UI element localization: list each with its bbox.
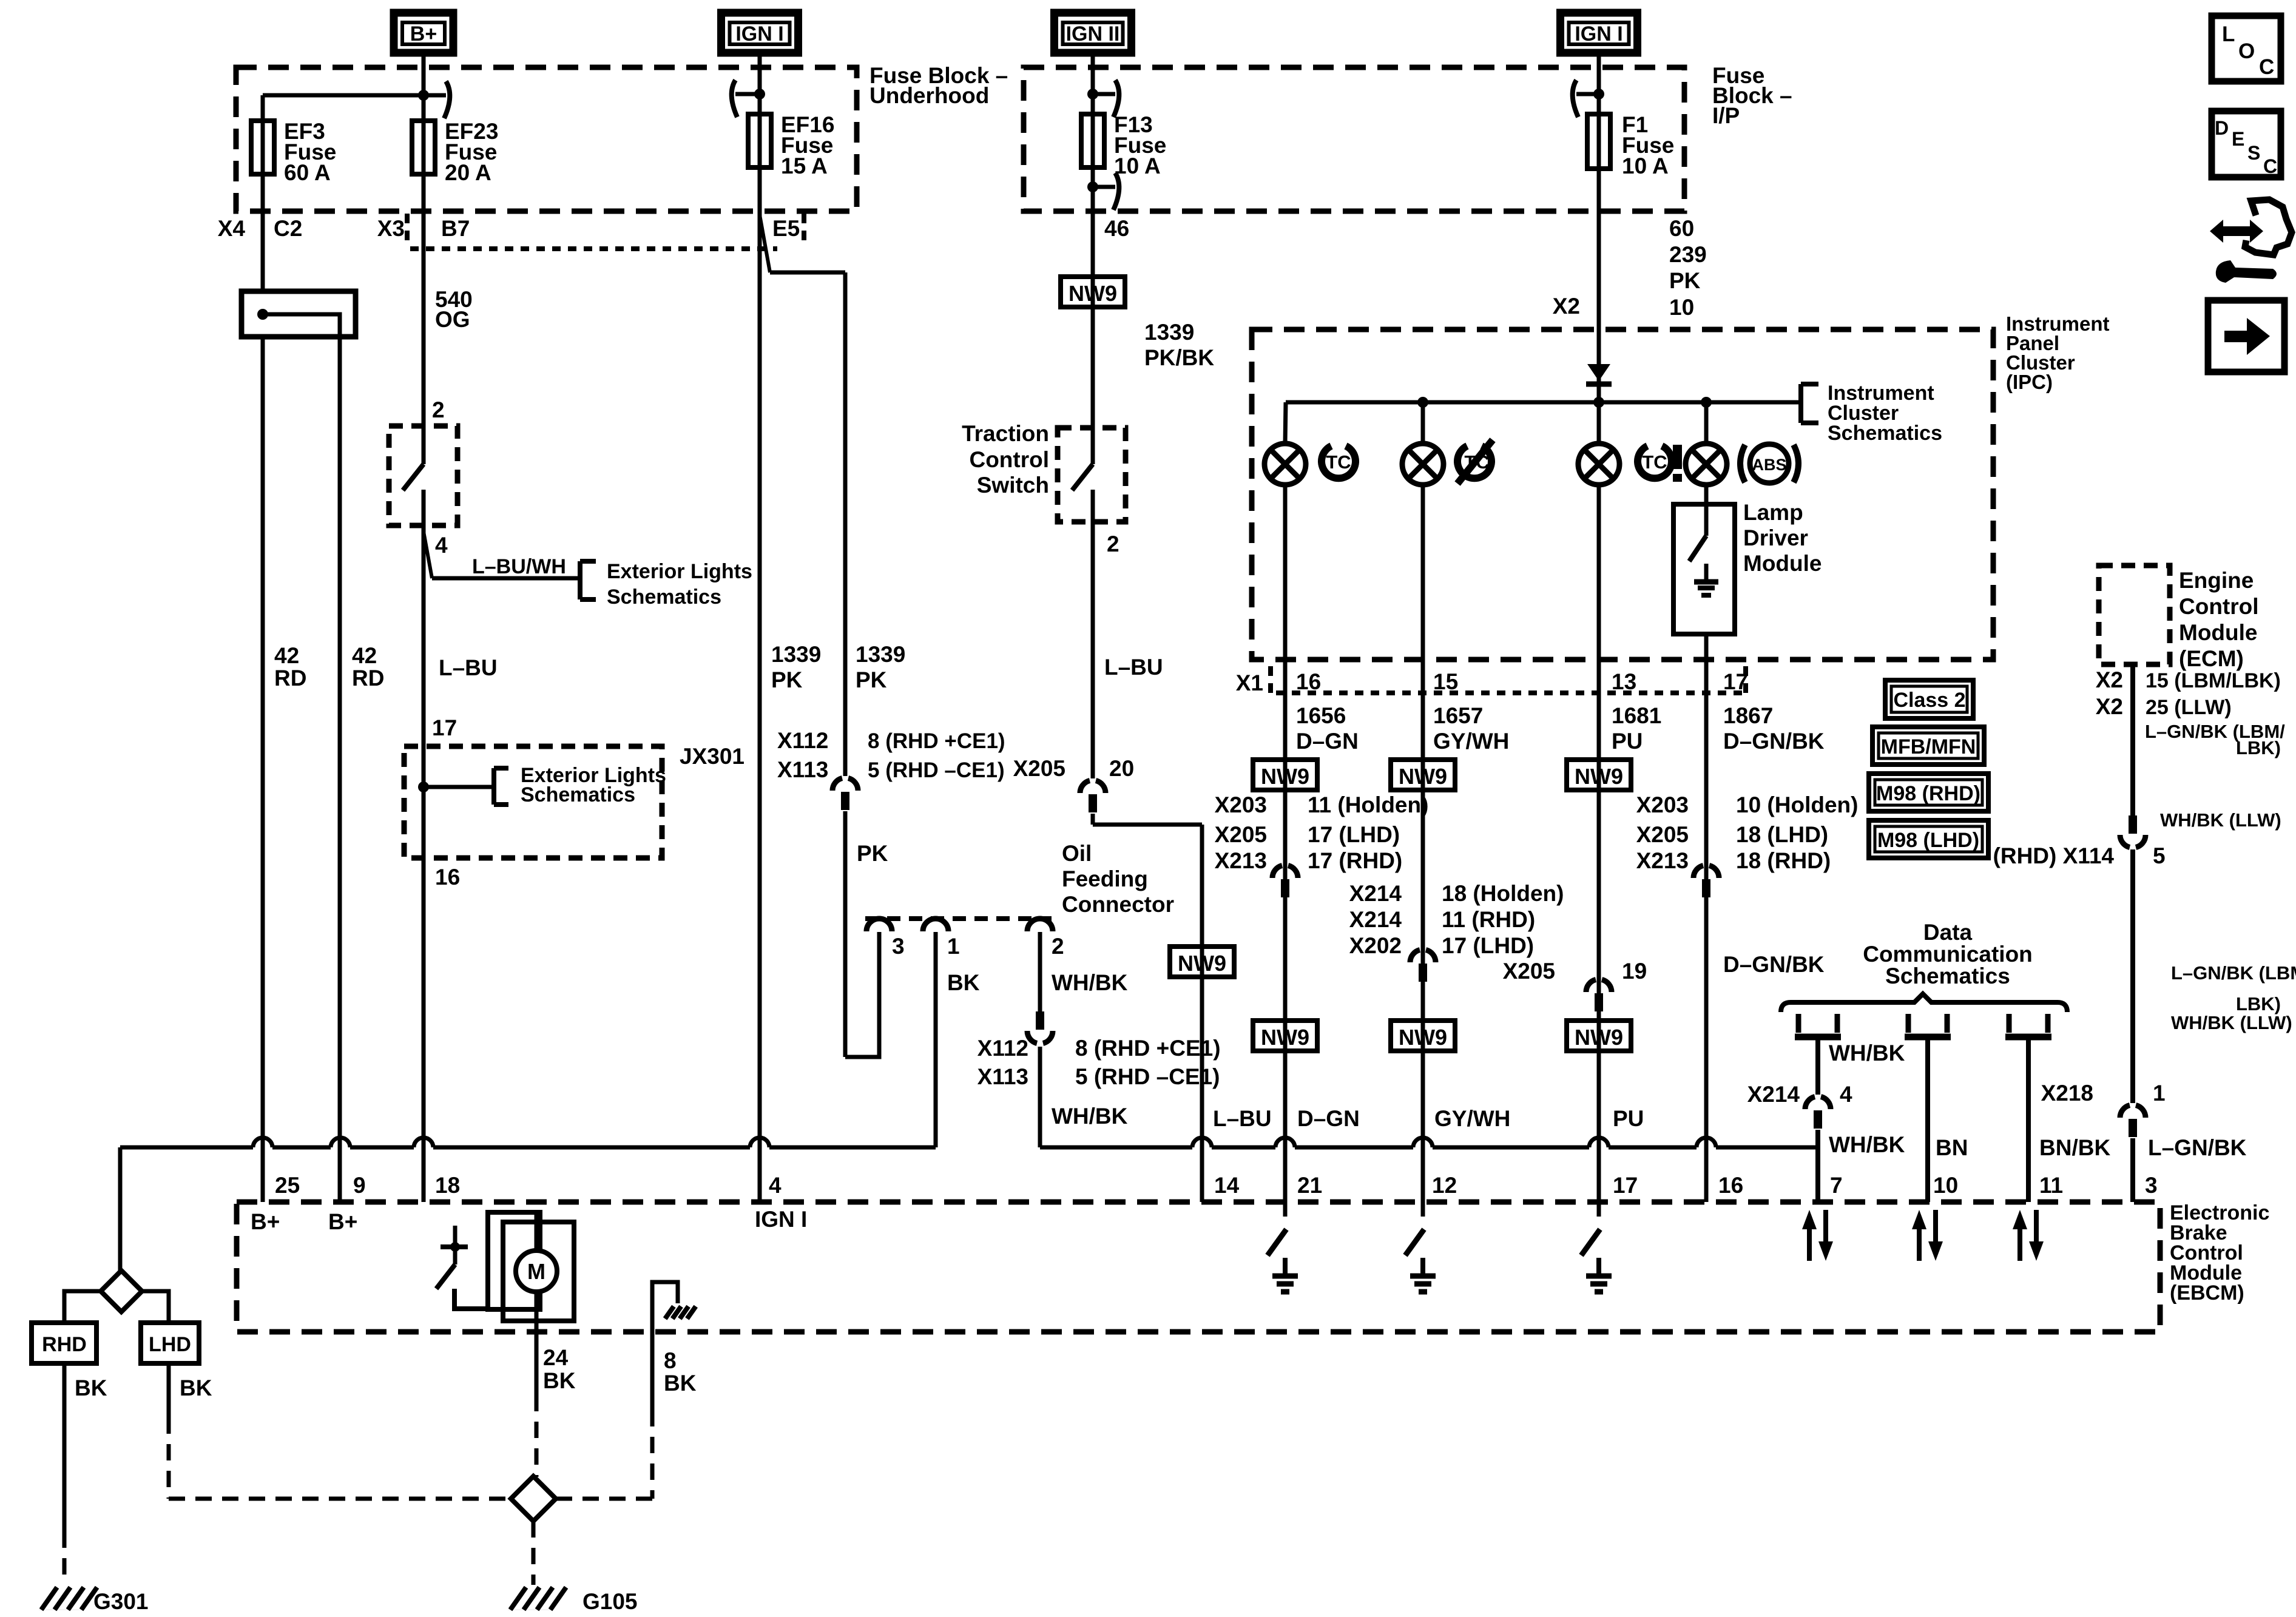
- svg-text:9: 9: [353, 1173, 366, 1198]
- svg-text:X205: X205: [1636, 822, 1689, 847]
- svg-text:L–BU/WH: L–BU/WH: [472, 555, 566, 578]
- svg-text:18 (Holden): 18 (Holden): [1442, 881, 1564, 906]
- svg-text:PK: PK: [1669, 268, 1701, 293]
- svg-text:LBK): LBK): [2236, 993, 2281, 1014]
- svg-text:1657: 1657: [1433, 703, 1483, 728]
- svg-text:18 (RHD): 18 (RHD): [1736, 848, 1831, 873]
- svg-text:C: C: [2263, 155, 2277, 177]
- svg-text:11 (Holden): 11 (Holden): [1308, 792, 1428, 817]
- svg-text:LHD: LHD: [149, 1333, 191, 1356]
- svg-text:42: 42: [274, 643, 299, 668]
- svg-text:L–BU: L–BU: [1104, 655, 1163, 680]
- svg-text:BN: BN: [1936, 1135, 1968, 1160]
- svg-text:2: 2: [1107, 532, 1119, 556]
- svg-text:RHD: RHD: [42, 1333, 87, 1356]
- svg-text:1: 1: [947, 934, 960, 959]
- svg-text:42: 42: [352, 643, 377, 668]
- svg-text:17 (LHD): 17 (LHD): [1442, 933, 1534, 958]
- svg-text:BK: BK: [180, 1376, 212, 1400]
- svg-text:8 (RHD +CE1): 8 (RHD +CE1): [868, 729, 1005, 753]
- svg-text:WH/BK: WH/BK: [1829, 1041, 1905, 1065]
- svg-text:16: 16: [1296, 669, 1321, 694]
- svg-text:5 (RHD –CE1): 5 (RHD –CE1): [1075, 1064, 1220, 1089]
- svg-text:X203: X203: [1215, 792, 1267, 817]
- svg-text:Lamp: Lamp: [1743, 500, 1803, 525]
- svg-text:17 (RHD): 17 (RHD): [1308, 848, 1402, 873]
- svg-text:4: 4: [1840, 1082, 1852, 1107]
- svg-text:X205: X205: [1215, 822, 1267, 847]
- svg-text:Traction: Traction: [962, 421, 1049, 446]
- svg-text:17: 17: [1723, 669, 1748, 694]
- svg-text:1339: 1339: [771, 642, 821, 667]
- svg-text:13: 13: [1612, 669, 1636, 694]
- svg-text:2: 2: [1052, 934, 1064, 959]
- svg-text:239: 239: [1669, 242, 1707, 267]
- svg-text:Module: Module: [1743, 551, 1822, 576]
- svg-text:WH/BK (LLW): WH/BK (LLW): [2171, 1012, 2292, 1033]
- svg-text:Exterior Lights: Exterior Lights: [607, 560, 752, 583]
- svg-text:L–BU: L–BU: [1213, 1106, 1272, 1131]
- svg-text:M98 (LHD): M98 (LHD): [1877, 829, 1979, 852]
- svg-text:X214: X214: [1349, 907, 1402, 932]
- svg-text:D–GN: D–GN: [1296, 729, 1359, 754]
- svg-text:S: S: [2247, 142, 2260, 164]
- svg-text:5: 5: [2153, 843, 2166, 868]
- svg-text:D–GN: D–GN: [1297, 1106, 1360, 1131]
- svg-text:20: 20: [1109, 756, 1134, 781]
- svg-text:5 (RHD –CE1): 5 (RHD –CE1): [868, 758, 1005, 782]
- svg-text:8: 8: [664, 1348, 677, 1373]
- svg-text:X4: X4: [218, 216, 246, 241]
- svg-text:JX301: JX301: [680, 744, 745, 769]
- svg-text:L: L: [2222, 22, 2235, 46]
- svg-text:11: 11: [2039, 1173, 2063, 1198]
- svg-text:PK/BK: PK/BK: [1144, 345, 1214, 370]
- svg-text:19: 19: [1622, 959, 1647, 984]
- svg-text:Communication: Communication: [1863, 942, 2033, 967]
- svg-text:Module: Module: [2179, 620, 2257, 645]
- svg-text:IGN I: IGN I: [735, 22, 783, 46]
- svg-text:MFB/MFN: MFB/MFN: [1881, 735, 1976, 758]
- svg-text:NW9: NW9: [1261, 1025, 1309, 1050]
- svg-text:17: 17: [1613, 1173, 1638, 1198]
- svg-text:Class 2: Class 2: [1893, 689, 1965, 712]
- svg-text:1339: 1339: [1144, 320, 1194, 345]
- svg-text:Schematics: Schematics: [1885, 964, 2010, 988]
- svg-text:BK: BK: [947, 970, 980, 995]
- svg-text:16: 16: [1718, 1173, 1743, 1198]
- svg-text:3: 3: [892, 934, 905, 959]
- svg-text:7: 7: [1830, 1173, 1843, 1198]
- svg-text:1656: 1656: [1296, 703, 1346, 728]
- svg-text:NW9: NW9: [1178, 951, 1226, 976]
- svg-text:Schematics: Schematics: [1828, 422, 1942, 445]
- svg-text:11 (RHD): 11 (RHD): [1442, 907, 1535, 932]
- svg-text:B7: B7: [441, 216, 470, 241]
- svg-text:10: 10: [1933, 1173, 1958, 1198]
- svg-text:8 (RHD +CE1): 8 (RHD +CE1): [1075, 1036, 1221, 1061]
- svg-text:60 A: 60 A: [284, 160, 331, 185]
- svg-text:3: 3: [2145, 1173, 2158, 1198]
- svg-text:L–GN/BK: L–GN/BK: [2148, 1135, 2247, 1160]
- svg-text:X214: X214: [1349, 881, 1402, 906]
- svg-text:20 A: 20 A: [445, 160, 491, 185]
- svg-text:B+: B+: [328, 1209, 357, 1234]
- svg-text:X213: X213: [1636, 848, 1689, 873]
- svg-text:PK: PK: [771, 667, 803, 692]
- svg-text:WH/BK: WH/BK: [1052, 1104, 1128, 1129]
- svg-text:15 (LBM/LBK): 15 (LBM/LBK): [2146, 669, 2281, 692]
- svg-text:21: 21: [1297, 1173, 1322, 1198]
- svg-text:NW9: NW9: [1261, 764, 1309, 789]
- svg-text:X112: X112: [777, 728, 828, 753]
- svg-text:17: 17: [432, 715, 457, 740]
- svg-text:Control: Control: [2179, 594, 2259, 619]
- svg-text:OG: OG: [435, 307, 470, 332]
- svg-text:PU: PU: [1613, 1106, 1644, 1131]
- svg-text:C: C: [2259, 55, 2274, 79]
- svg-text:IGN I: IGN I: [755, 1207, 807, 1232]
- svg-text:TC: TC: [1642, 451, 1667, 473]
- svg-text:10: 10: [1669, 295, 1694, 320]
- svg-text:ABS: ABS: [1752, 456, 1786, 474]
- svg-text:10 A: 10 A: [1622, 154, 1669, 178]
- svg-text:Schematics: Schematics: [521, 783, 635, 806]
- svg-text:D–GN/BK: D–GN/BK: [1723, 952, 1825, 977]
- svg-text:15: 15: [1433, 669, 1458, 694]
- svg-text:X3: X3: [377, 216, 405, 241]
- svg-text:X202: X202: [1349, 933, 1402, 958]
- svg-text:D–GN/BK: D–GN/BK: [1723, 729, 1825, 754]
- svg-text:Driver: Driver: [1743, 525, 1808, 550]
- svg-text:Oil: Oil: [1062, 841, 1092, 866]
- svg-text:O: O: [2238, 39, 2255, 63]
- svg-text:14: 14: [1214, 1173, 1240, 1198]
- svg-text:BK: BK: [75, 1376, 107, 1400]
- svg-text:WH/BK (LLW): WH/BK (LLW): [2160, 809, 2281, 831]
- svg-text:1867: 1867: [1723, 703, 1773, 728]
- svg-text:BN/BK: BN/BK: [2039, 1135, 2110, 1160]
- svg-text:16: 16: [435, 865, 460, 890]
- svg-text:L–GN/BK (LBM/: L–GN/BK (LBM/: [2171, 962, 2296, 984]
- svg-text:25: 25: [275, 1173, 300, 1198]
- svg-text:Control: Control: [969, 447, 1049, 472]
- svg-text:4: 4: [769, 1173, 782, 1198]
- svg-text:60: 60: [1669, 216, 1694, 241]
- svg-text:TC: TC: [1326, 451, 1351, 473]
- svg-text:RD: RD: [274, 666, 306, 690]
- svg-text:10 (Holden): 10 (Holden): [1736, 792, 1858, 817]
- svg-text:RD: RD: [352, 666, 384, 690]
- svg-text:25 (LLW): 25 (LLW): [2146, 696, 2232, 719]
- svg-text:X203: X203: [1636, 792, 1689, 817]
- svg-text:GY/WH: GY/WH: [1433, 729, 1509, 754]
- svg-text:IGN II: IGN II: [1066, 22, 1120, 46]
- svg-text:(ECM): (ECM): [2179, 646, 2244, 671]
- svg-text:E: E: [2232, 128, 2244, 150]
- svg-text:D: D: [2215, 117, 2229, 139]
- svg-text:(EBCM): (EBCM): [2170, 1281, 2244, 1305]
- svg-text:BK: BK: [543, 1368, 576, 1393]
- svg-text:18: 18: [435, 1173, 460, 1198]
- svg-text:NW9: NW9: [1399, 764, 1447, 789]
- svg-text:18 (LHD): 18 (LHD): [1736, 822, 1828, 847]
- svg-text:4: 4: [435, 533, 448, 558]
- svg-text:2: 2: [432, 397, 445, 422]
- svg-text:17 (LHD): 17 (LHD): [1308, 822, 1400, 847]
- svg-text:Underhood: Underhood: [869, 83, 989, 108]
- svg-text:X2: X2: [1553, 294, 1580, 319]
- svg-text:1339: 1339: [856, 642, 905, 667]
- svg-text:NW9: NW9: [1069, 281, 1117, 306]
- svg-text:24: 24: [543, 1345, 569, 1370]
- svg-text:B+: B+: [410, 22, 437, 46]
- svg-text:1681: 1681: [1612, 703, 1661, 728]
- svg-text:G301: G301: [93, 1589, 149, 1614]
- svg-text:X205: X205: [1503, 959, 1555, 984]
- svg-text:X113: X113: [977, 1064, 1028, 1089]
- svg-text:WH/BK: WH/BK: [1829, 1132, 1905, 1157]
- svg-text:1: 1: [2153, 1081, 2166, 1106]
- svg-text:G105: G105: [582, 1589, 638, 1614]
- svg-text:46: 46: [1104, 216, 1129, 241]
- svg-text:LBK): LBK): [2236, 737, 2281, 758]
- svg-text:X214: X214: [1747, 1082, 1800, 1107]
- svg-text:PU: PU: [1612, 729, 1643, 754]
- svg-text:NW9: NW9: [1399, 1025, 1447, 1050]
- svg-text:X218: X218: [2041, 1081, 2093, 1106]
- svg-text:Data: Data: [1923, 920, 1973, 945]
- svg-text:NW9: NW9: [1575, 764, 1623, 789]
- svg-text:IGN I: IGN I: [1575, 22, 1622, 46]
- svg-text:Feeding: Feeding: [1062, 866, 1148, 891]
- svg-text:PK: PK: [856, 667, 887, 692]
- svg-text:X205: X205: [1013, 756, 1065, 781]
- svg-text:X113: X113: [777, 757, 828, 782]
- svg-text:X2: X2: [2096, 694, 2123, 719]
- svg-text:Engine: Engine: [2179, 568, 2254, 593]
- svg-text:Schematics: Schematics: [607, 586, 721, 609]
- svg-text:12: 12: [1432, 1173, 1457, 1198]
- svg-text:GY/WH: GY/WH: [1434, 1106, 1510, 1131]
- svg-text:X213: X213: [1215, 848, 1267, 873]
- svg-text:(RHD) X114: (RHD) X114: [1993, 843, 2115, 868]
- svg-text:(IPC): (IPC): [2006, 371, 2053, 393]
- svg-text:I/P: I/P: [1712, 103, 1740, 128]
- svg-text:15 A: 15 A: [781, 154, 828, 178]
- svg-text:Connector: Connector: [1062, 892, 1174, 917]
- svg-text:M: M: [527, 1259, 545, 1284]
- svg-text:X1: X1: [1236, 670, 1263, 695]
- svg-text:BK: BK: [664, 1371, 697, 1396]
- svg-text:B+: B+: [251, 1209, 280, 1234]
- svg-text:C2: C2: [274, 216, 302, 241]
- svg-text:M98 (RHD): M98 (RHD): [1876, 782, 1980, 805]
- svg-text:X2: X2: [2096, 667, 2123, 692]
- svg-text:PK: PK: [857, 841, 888, 866]
- svg-text:10 A: 10 A: [1114, 154, 1161, 178]
- svg-text:L–BU: L–BU: [439, 655, 498, 680]
- svg-text:NW9: NW9: [1575, 1025, 1623, 1050]
- svg-text:Switch: Switch: [977, 473, 1049, 498]
- svg-text:E5: E5: [772, 216, 800, 241]
- svg-text:WH/BK: WH/BK: [1052, 970, 1128, 995]
- svg-text:X112: X112: [977, 1036, 1028, 1061]
